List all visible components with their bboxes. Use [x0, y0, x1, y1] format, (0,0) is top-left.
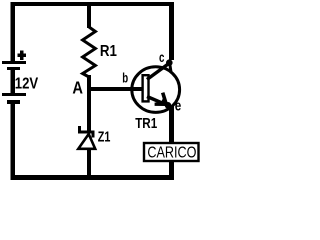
battery B1 cell1 long plate — [2, 61, 26, 64]
wire left rail lower (battery - to bottom rail) — [11, 104, 16, 180]
wire left rail upper (top rail to battery +) — [11, 2, 16, 61]
wire CARICO box to bottom rail — [169, 161, 174, 175]
transistor TR1 collector line — [147, 63, 170, 80]
wire emitter to CARICO box — [169, 105, 174, 143]
load box CARICO — [144, 143, 199, 161]
transistor TR1 circle — [132, 67, 180, 113]
battery B1 cell1 short plate — [7, 67, 20, 70]
svg-text:CARICO: CARICO — [147, 145, 196, 162]
svg-text:12V: 12V — [15, 76, 39, 93]
svg-text:Z1: Z1 — [98, 129, 111, 145]
svg-text:A: A — [72, 78, 83, 98]
zener diode Z1 cathode bar — [78, 126, 95, 138]
battery B1 cell2 long plate — [2, 93, 26, 96]
zener diode Z1 anode triangle — [78, 134, 95, 149]
wire resistor bottom stub (R1 to node A) — [87, 75, 91, 91]
svg-text:e: e — [175, 97, 182, 114]
svg-text:TR1: TR1 — [135, 115, 157, 132]
svg-text:R1: R1 — [100, 43, 117, 60]
wire node A to base — [89, 87, 142, 91]
transistor TR1 emitter arrow — [163, 93, 167, 105]
transistor TR1 base bar — [143, 75, 149, 101]
svg-text:c: c — [159, 50, 165, 65]
wire node A to zener Z1 — [87, 91, 91, 131]
transistor TR1 emitter line — [147, 97, 167, 105]
wire bottom rail — [11, 175, 174, 180]
wire resistor top stub (top rail to R1) — [87, 6, 91, 28]
wire battery inter-cell — [11, 70, 16, 94]
junction dot collector c — [166, 59, 173, 66]
resistor R1 zigzag — [83, 27, 96, 77]
wire right rail (top rail to collector junction) — [169, 2, 174, 60]
svg-text:b: b — [122, 71, 128, 86]
wire top rail — [11, 2, 173, 6]
wire collector dot to circle arc — [170, 63, 171, 72]
wire zener Z1 to bottom rail — [87, 148, 91, 175]
battery B1 plus sign — [17, 51, 25, 61]
battery B1 cell2 short plate — [7, 100, 20, 104]
junction dot emitter e — [165, 102, 172, 109]
